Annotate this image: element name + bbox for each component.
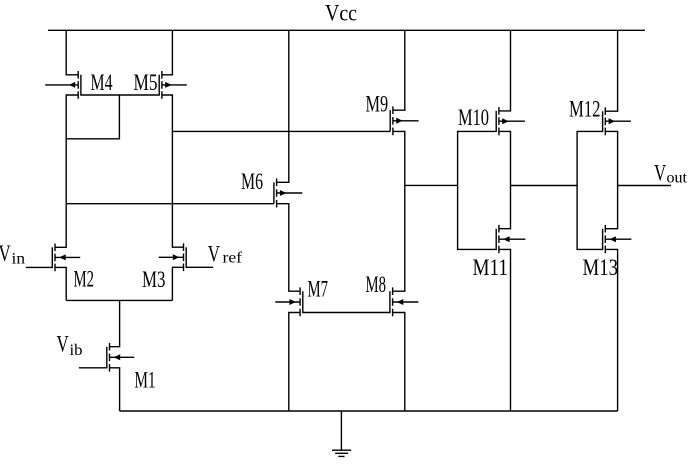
transistor M5 arrow bbox=[165, 82, 172, 88]
wire M3 source bbox=[172, 267, 183, 300]
transistor M3 gate bar and gate lead to Vref bbox=[186, 247, 213, 267]
svg-text:M4: M4 bbox=[91, 70, 113, 95]
wire M12 drain to Vcc bbox=[605, 30, 617, 111]
wire M10 drain to Vcc bbox=[499, 30, 511, 111]
wire M12 source to M13 drain bbox=[605, 131, 617, 228]
transistor M10 bulk lead bbox=[499, 120, 525, 122]
transistor M13 bulk lead bbox=[605, 238, 631, 240]
svg-text:ib: ib bbox=[70, 342, 83, 359]
svg-text:V: V bbox=[654, 161, 666, 186]
transistor M6 bulk lead bbox=[277, 192, 303, 194]
transistor M11 arrow bbox=[503, 236, 510, 242]
svg-text:out: out bbox=[667, 170, 688, 187]
transistor M1 arrow bbox=[114, 354, 121, 360]
svg-text:M6: M6 bbox=[241, 169, 263, 194]
svg-text:M9: M9 bbox=[366, 92, 389, 117]
svg-text:M10: M10 bbox=[458, 105, 489, 130]
svg-text:M3: M3 bbox=[142, 267, 166, 292]
transistor M9 gate bar bbox=[389, 110, 391, 131]
wire Vout lead bbox=[618, 185, 671, 187]
transistor M6 channel dashes bbox=[276, 179, 278, 208]
svg-text:M7: M7 bbox=[308, 277, 329, 302]
svg-text:M8: M8 bbox=[366, 272, 387, 297]
wire M9 source to M8 drain bbox=[393, 131, 405, 291]
wire M7 source to ground rail bbox=[289, 313, 300, 412]
svg-text:M1: M1 bbox=[135, 368, 156, 393]
transistor M4 channel dashes bbox=[77, 71, 79, 99]
wire M13 source to ground rail bbox=[605, 249, 617, 411]
wire M2 source bbox=[55, 267, 66, 300]
wire M4 drain to Vcc bbox=[66, 30, 78, 75]
svg-text:M13: M13 bbox=[583, 255, 619, 280]
transistor M12 bulk lead bbox=[605, 120, 631, 122]
svg-text:Vcc: Vcc bbox=[325, 1, 357, 26]
transistor M2 channel dashes bbox=[54, 244, 56, 272]
transistor M9 channel dashes bbox=[392, 106, 394, 135]
transistor M10 gate bar, gate loop, transistor M11 gate bar bbox=[458, 111, 497, 250]
transistor M5 channel dashes bbox=[161, 71, 163, 99]
transistor M13 channel dashes bbox=[604, 225, 606, 253]
transistor M1 gate bar and gate lead to Vib bbox=[79, 347, 107, 368]
transistor M3 channel dashes bbox=[183, 243, 185, 271]
transistor M10 arrow bbox=[502, 118, 509, 124]
transistor M11 bulk lead bbox=[499, 238, 526, 240]
svg-text:in: in bbox=[12, 251, 26, 268]
ground symbol bbox=[332, 411, 351, 456]
svg-text:V: V bbox=[0, 241, 11, 266]
svg-text:M11: M11 bbox=[473, 255, 509, 280]
transistor M10 channel dashes bbox=[498, 107, 500, 135]
transistor M9 arrow bbox=[396, 118, 403, 124]
wire M8 source to ground rail bbox=[393, 313, 405, 412]
wire M10 source to M11 drain bbox=[499, 131, 511, 228]
transistor M7 gate bar, gate bus to M8, transistor M8 gate bar bbox=[303, 291, 390, 312]
wire tail bus bbox=[66, 299, 172, 301]
ground rail bbox=[120, 410, 618, 412]
svg-text:ref: ref bbox=[223, 250, 243, 267]
transistor M2 arrow bbox=[59, 254, 65, 260]
svg-text:V: V bbox=[208, 242, 220, 267]
wire M4 source to M2 drain bbox=[55, 95, 78, 247]
svg-text:M5: M5 bbox=[134, 70, 158, 95]
transistor M9 bulk lead bbox=[393, 120, 419, 122]
transistor M13 arrow bbox=[610, 236, 617, 242]
transistor M12 gate bar, gate loop, transistor M13 gate bar bbox=[577, 111, 603, 249]
transistor M1 bulk lead bbox=[110, 356, 135, 358]
wire M5 drain to Vcc bbox=[162, 30, 173, 75]
transistor M3 bulk lead bbox=[159, 256, 184, 258]
transistor M4 arrow bbox=[69, 82, 75, 88]
transistor M2 bulk lead bbox=[55, 256, 80, 258]
wire M6 drain to Vcc bbox=[277, 30, 289, 182]
Vcc rail bbox=[48, 29, 645, 31]
transistor M2 gate bar and gate lead to Vin bbox=[26, 247, 53, 267]
wire node C to M10 M11 gates bbox=[405, 184, 458, 186]
wire M4 diode connection loop bbox=[66, 95, 119, 139]
wire node A to M6 gate bbox=[66, 203, 274, 205]
wire node D to M12 M13 gates bbox=[511, 185, 578, 187]
wire M1 source to ground rail bbox=[110, 368, 120, 411]
transistor M4 gate bar, gate bus to M5, transistor M5 gate bar bbox=[81, 75, 159, 95]
svg-text:V: V bbox=[57, 332, 69, 357]
transistor M6 gate bar and gate lead bbox=[273, 182, 275, 203]
transistor M6 arrow bbox=[280, 190, 287, 196]
transistor M8 channel dashes bbox=[392, 287, 394, 316]
transistor M4 bulk lead bbox=[45, 84, 78, 86]
transistor M5 bulk lead bbox=[162, 84, 187, 86]
transistor M8 bulk lead bbox=[393, 301, 419, 303]
transistor M12 arrow bbox=[609, 118, 616, 124]
transistor M7 bulk lead bbox=[275, 301, 300, 303]
transistor M8 arrow bbox=[397, 299, 404, 305]
transistor M12 channel dashes bbox=[604, 107, 606, 135]
wire M9 drain to Vcc bbox=[393, 30, 405, 110]
transistor M11 channel dashes bbox=[498, 225, 500, 253]
transistor M1 channel dashes bbox=[109, 343, 111, 372]
transistor M7 arrow bbox=[289, 299, 296, 305]
svg-text:M2: M2 bbox=[74, 267, 95, 292]
wire M11 source to ground rail bbox=[499, 249, 511, 411]
transistor M3 arrow bbox=[173, 254, 180, 260]
wire node B to M9 gate bbox=[172, 130, 390, 132]
wire tail to M1 drain bbox=[110, 300, 120, 346]
transistor M7 channel dashes bbox=[299, 287, 301, 316]
wire M5 source down to M3 drain bbox=[162, 95, 184, 247]
svg-text:M12: M12 bbox=[569, 97, 601, 122]
wire M6 source to M7 drain bbox=[277, 204, 301, 292]
